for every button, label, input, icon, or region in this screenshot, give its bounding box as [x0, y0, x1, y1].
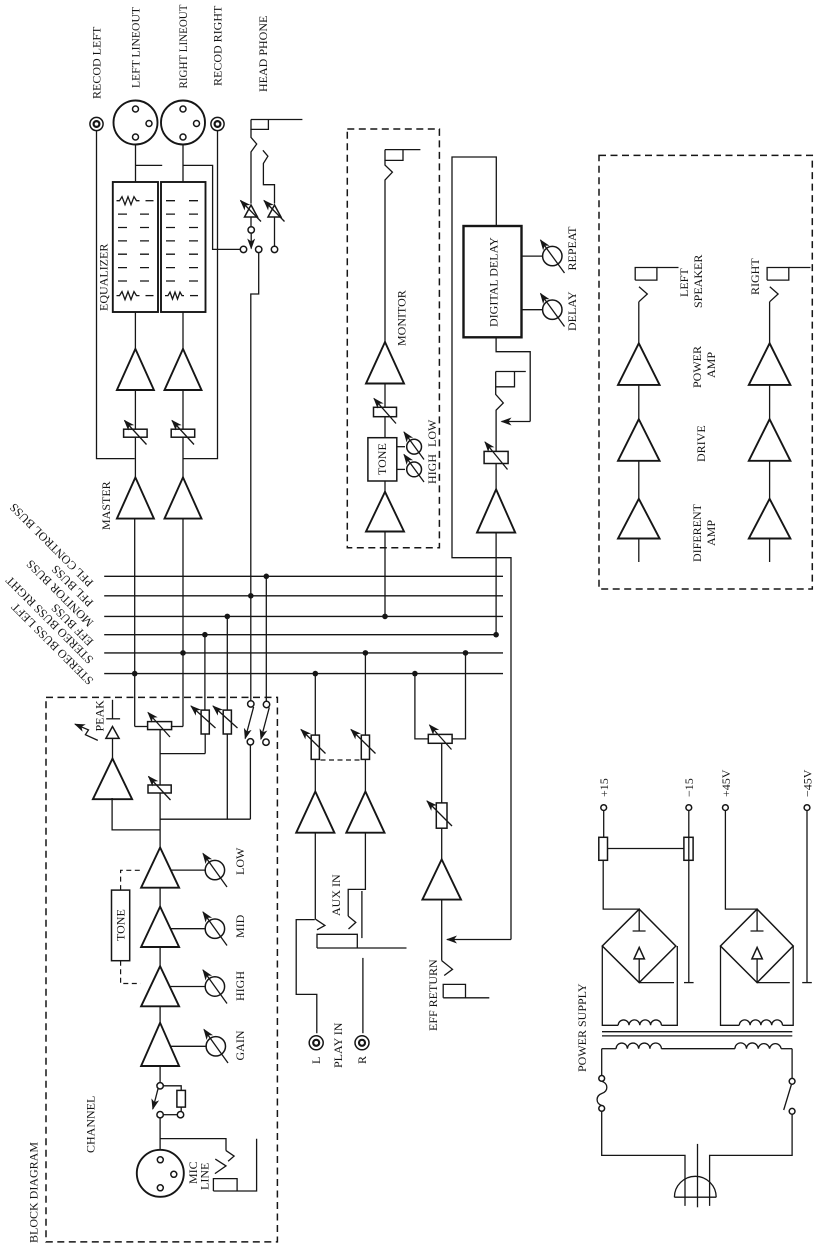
- wire -15 terminal down: [688, 811, 690, 983]
- wire master R down to stereo buss right and pan pot: [182, 519, 184, 727]
- wire PFL switch to branch: [249, 745, 251, 819]
- switch PFL-control bottom contact: [263, 739, 269, 745]
- fader pot (channel): [148, 777, 171, 801]
- wire left drive to power amp: [638, 385, 640, 419]
- EQ2 slider tick rows: [166, 201, 198, 281]
- pad resistor branch wire bottom: [180, 1107, 182, 1111]
- junction aux R / stereo buss right: [363, 650, 369, 656]
- selector contact middle: [256, 246, 262, 252]
- wire channel chain pan pot to fader: [159, 730, 161, 785]
- svg-text:MONITOR: MONITOR: [395, 290, 409, 346]
- switch PFL bottom contact: [247, 739, 253, 745]
- wire delay box to REPEAT knob: [522, 255, 543, 257]
- svg-text:TONE: TONE: [375, 443, 389, 475]
- wire LOW amp to knob: [171, 869, 206, 871]
- wire monitor pot up to MONITOR buss: [226, 616, 228, 710]
- wire aux L amp to jack: [314, 833, 316, 919]
- svg-text:PLAY IN: PLAY IN: [331, 1022, 345, 1068]
- wire between pad bottom contacts: [163, 1114, 177, 1116]
- svg-text:HEAD PHONE: HEAD PHONE: [256, 16, 270, 92]
- wire pan pot left terminal: [135, 726, 148, 728]
- wire GAIN amp to pad switch: [159, 1066, 161, 1083]
- wire aux L pot to amp: [314, 759, 316, 791]
- wire XLR2 to equalizer R: [182, 145, 184, 183]
- wire MONITOR BUSS: [104, 615, 503, 617]
- knob DELAY: [541, 294, 565, 327]
- wire -45V terminal down: [806, 811, 808, 983]
- terminal +15: [601, 805, 607, 811]
- svg-text:+45V: +45V: [719, 769, 733, 797]
- wire +15 resistor to bridge1 top: [603, 860, 639, 909]
- resistor slider EQ2 bottom: [165, 292, 184, 299]
- knob GAIN: [204, 1030, 228, 1064]
- svg-text:MID: MID: [233, 914, 247, 938]
- bridge rectifier 1 diamond: [602, 909, 676, 983]
- wire pad switch to mic xlr: [159, 1118, 161, 1150]
- pad switch lever: [153, 1089, 158, 1109]
- label DIFERENT AMP: [690, 503, 718, 562]
- wire HIGH amp to GAIN amp: [159, 1006, 161, 1023]
- svg-text:−45V: −45V: [801, 769, 815, 797]
- svg-text:−15: −15: [682, 778, 696, 797]
- svg-text:R: R: [355, 1056, 369, 1064]
- wire MID amp to HIGH amp: [159, 947, 161, 966]
- right speaker jack sleeve line: [789, 267, 811, 269]
- junction master R / stereo buss right: [180, 650, 186, 656]
- potentiometer master-record L: [124, 421, 148, 445]
- wire left chain input stub: [638, 539, 640, 563]
- wire HIGH amp to knob: [171, 986, 206, 988]
- svg-text:DIGITAL DELAY: DIGITAL DELAY: [487, 237, 501, 327]
- wire right power amp to speaker jack: [769, 302, 771, 344]
- wire pot R to master amp: [182, 437, 184, 477]
- pan pot (channel): [148, 713, 172, 738]
- wire fader to LOW amp with branch junctions: [159, 793, 161, 848]
- mains switch contact top: [789, 1078, 795, 1084]
- aux jack sleeve line: [317, 947, 407, 949]
- fuse-breaker contact top: [599, 1076, 605, 1082]
- mains switch lever: [784, 1085, 792, 1111]
- wire monitor amp down to monitor buss: [384, 481, 386, 616]
- wire right diferent to drive: [769, 461, 771, 499]
- switch PFL-control top contact: [263, 701, 269, 707]
- wire EFF BUSS: [104, 634, 496, 636]
- knob monitor HIGH: [404, 455, 424, 483]
- equalizer box right: [161, 182, 206, 312]
- wire pot to delay send amp: [495, 464, 497, 490]
- junction channel monitor send / MONITOR buss: [225, 614, 231, 620]
- potentiometer aux R: [351, 730, 376, 760]
- wire +45V terminal to bridge2 top: [725, 811, 757, 910]
- channel TONE box: [112, 890, 130, 961]
- op-amp peak driver: [93, 759, 132, 800]
- resistor slider EQ1 top: [117, 197, 140, 205]
- wire +15 terminal to resistor: [603, 811, 605, 838]
- junction eff return R / stereo buss right: [463, 650, 469, 656]
- svg-text:MASTER: MASTER: [99, 481, 113, 530]
- svg-text:DRIVE: DRIVE: [694, 425, 708, 462]
- wire aux R buss to pot: [364, 653, 366, 735]
- op-amp channel HIGH: [141, 966, 179, 1006]
- selector wiper contact: [248, 227, 254, 233]
- op-amp channel GAIN: [141, 1023, 179, 1066]
- channel dashed box: [46, 697, 277, 1242]
- peak LED lightning arrow: [75, 724, 98, 740]
- wire STEREO BUSS RIGHT: [104, 652, 503, 654]
- wire -45V end bar: [802, 982, 812, 984]
- svg-text:HIGH: HIGH: [425, 454, 439, 484]
- svg-text:POWER: POWER: [690, 346, 704, 388]
- wire PFL BUSS: [104, 595, 503, 597]
- dashed gang link between aux pots: [321, 759, 361, 761]
- peak LED cathode bar: [106, 718, 120, 720]
- power amp dashed box: [599, 155, 812, 589]
- wire right chain input stub: [769, 539, 771, 563]
- wire peak LED top: [112, 700, 114, 719]
- delay jack sleeve line: [496, 371, 526, 373]
- svg-text:EQUALIZER: EQUALIZER: [97, 244, 111, 311]
- line jack sleeve line: [213, 1139, 256, 1191]
- svg-text:LEFT LINEOUT: LEFT LINEOUT: [129, 6, 143, 88]
- knob REPEAT: [541, 240, 565, 273]
- monitor dashed box: [347, 129, 439, 548]
- knob monitor LOW: [404, 432, 424, 460]
- left speaker jack body: [635, 268, 657, 281]
- monitor jack contact: [385, 160, 392, 342]
- delay jack body: [496, 372, 515, 387]
- mains plug center pin: [697, 1144, 699, 1207]
- wire switch to plug right prong: [710, 1114, 793, 1206]
- transformer core lines: [602, 1032, 792, 1036]
- wire left diferent to drive: [638, 461, 640, 499]
- bridge2 diode symbol: [751, 909, 764, 983]
- wire delay send amp to EFF buss: [495, 533, 497, 635]
- right speaker jack contact: [770, 287, 779, 302]
- wire pan pot to level pot: [441, 743, 443, 803]
- wire right lineout tap to headphone selector: [183, 165, 240, 249]
- right speaker jack body: [767, 268, 789, 281]
- switch PFL top contact: [248, 701, 254, 707]
- wire EQ2 to line amp R: [182, 312, 184, 349]
- connector J2 LEFT LINEOUT (XLR): [114, 101, 158, 145]
- pad switch top contact: [157, 1083, 163, 1089]
- aux jack body: [317, 934, 357, 948]
- transformer secondary 2: [721, 946, 794, 1025]
- LED level R: [264, 201, 285, 222]
- potentiometer delay send: [484, 442, 508, 470]
- potentiometer monitor level: [374, 399, 397, 424]
- fuse-breaker contact bottom: [599, 1106, 605, 1112]
- op-amp left drive: [618, 419, 660, 461]
- peak LED triangle: [106, 727, 119, 739]
- wire branch to monitor pot and PFL switch: [160, 818, 250, 820]
- fuse-breaker S element: [597, 1081, 607, 1105]
- svg-text:L: L: [309, 1057, 323, 1064]
- connector J4 RECOD RIGHT (RCA): [211, 117, 224, 130]
- wire RECOD LEFT to master-left tap: [97, 131, 135, 459]
- selector contact left: [240, 246, 246, 252]
- label POWER AMP: [690, 346, 718, 388]
- selector contact right: [271, 246, 277, 252]
- svg-text:TONE: TONE: [114, 909, 128, 941]
- wire play-in L feed: [296, 920, 317, 1034]
- wire LOW amp to MID amp: [159, 888, 161, 907]
- DIGITAL DELAY box: [464, 226, 522, 337]
- headphone jack contact ring: [263, 150, 275, 203]
- aux jack contact R: [348, 916, 356, 929]
- svg-text:REPEAT: REPEAT: [565, 226, 579, 271]
- op-amp aux L: [296, 792, 334, 833]
- wire delay box top to eff-return feed: [452, 157, 511, 940]
- svg-text:DELAY: DELAY: [565, 291, 579, 331]
- junction monitor feed / MONITOR buss: [382, 614, 388, 620]
- wire switch to primary right: [791, 1049, 793, 1079]
- mains switch contact bottom: [789, 1108, 795, 1114]
- potentiometer monitor send (channel): [213, 706, 238, 734]
- EQ1 slider tick rows: [118, 214, 149, 281]
- wire aux R pot to amp: [364, 759, 366, 791]
- svg-text:GAIN: GAIN: [233, 1030, 247, 1060]
- wire stub left lineout tap: [136, 164, 163, 166]
- wire delay box to DELAY knob: [522, 309, 543, 311]
- monitor jack sleeve line: [385, 149, 420, 151]
- wire master L down to stereo buss left and pan pot: [134, 519, 136, 727]
- svg-text:EFF RETURN: EFF RETURN: [426, 959, 440, 1031]
- resistor +15 rail: [599, 837, 608, 860]
- svg-text:SPEAKER: SPEAKER: [691, 255, 705, 308]
- wire eff return R to stereo buss right: [452, 653, 465, 739]
- knob LOW: [203, 854, 227, 888]
- wire linking rail resistors: [608, 848, 684, 850]
- wire eff return L to stereo buss left: [415, 674, 428, 739]
- connector J1 RECOD LEFT (RCA): [90, 117, 103, 130]
- svg-text:RIGHT: RIGHT: [748, 258, 762, 295]
- wire selector middle contact down to PFL buss: [251, 253, 259, 701]
- transformer secondary 1: [602, 946, 677, 1025]
- op-amp channel MID: [141, 907, 179, 947]
- knob MID: [203, 912, 227, 946]
- connector mic XLR: [137, 1150, 184, 1197]
- dashed link tone to LOW amp: [121, 870, 141, 890]
- wire primary left to fuse: [601, 1049, 603, 1076]
- left speaker jack contact: [639, 287, 648, 302]
- selector wiper arrow: [250, 234, 252, 249]
- dashed link tone to HIGH amp: [121, 961, 141, 984]
- eff return jack contact: [442, 961, 453, 976]
- wire delay box bottom to insert arrow: [496, 337, 530, 421]
- svg-text:LOW: LOW: [233, 847, 247, 875]
- equalizer box left: [113, 182, 158, 312]
- svg-text:AMP: AMP: [704, 352, 718, 378]
- junction channel eff send / EFF buss: [202, 632, 208, 638]
- wire level pot to amp: [441, 828, 443, 859]
- svg-text:+15: +15: [597, 778, 611, 797]
- bridge rectifier 2 diamond: [721, 909, 794, 983]
- wire delay insert arrow: [502, 421, 531, 423]
- pad switch bottom-right contact: [177, 1112, 183, 1118]
- wire play-in R riser: [362, 958, 364, 1033]
- eff return jack body: [443, 984, 465, 997]
- resistor slider EQ1 bottom: [117, 292, 140, 300]
- wire LED L to selector wiper: [250, 217, 252, 227]
- op-amp aux R: [346, 792, 384, 833]
- wire delay return into eff-return chain (arrow): [447, 939, 511, 941]
- potentiometer master-record R: [171, 421, 195, 445]
- op-amp delay send: [477, 489, 515, 532]
- wire aux R amp to jack: [348, 833, 365, 916]
- op-amp right drive: [749, 419, 791, 461]
- eff return jack sleeve line: [443, 997, 489, 999]
- wire pot L to master amp: [134, 437, 136, 477]
- wire MID amp to knob: [171, 928, 206, 930]
- wire RECOD RIGHT to master-right tap: [183, 131, 218, 459]
- wire left power amp to speaker jack: [638, 302, 640, 344]
- svg-text:AUX IN: AUX IN: [329, 874, 343, 916]
- line jack contact: [226, 1151, 234, 1162]
- op-amp MASTER R: [165, 477, 202, 518]
- op-amp MASTER L: [117, 477, 154, 518]
- monitor jack body: [385, 150, 403, 161]
- junction headphone-PFL / PFL buss: [248, 593, 254, 599]
- resistor -15 rail: [684, 837, 693, 860]
- wire peak amp to LED: [112, 738, 114, 758]
- wire XLR1 to equalizer L: [135, 145, 137, 183]
- wire primary left to plug: [602, 1111, 685, 1206]
- svg-text:BLOCK DIAGRAM: BLOCK DIAGRAM: [27, 1142, 41, 1243]
- knob HIGH: [203, 970, 227, 1004]
- op-amp right power amp: [749, 343, 791, 385]
- op-amp left diferent amp: [618, 499, 660, 539]
- potentiometer aux L: [301, 730, 326, 760]
- wire branch to peak amp: [112, 798, 160, 830]
- svg-text:PEAK: PEAK: [92, 700, 106, 732]
- wire branch to eff pot: [160, 753, 205, 755]
- svg-text:LINE: LINE: [198, 1163, 212, 1190]
- junction PFL control / PFL CONTROL buss: [264, 574, 270, 580]
- wire monitor amp to pot: [384, 384, 386, 408]
- mains plug dome: [674, 1176, 716, 1197]
- monitor TONE box: [368, 438, 397, 481]
- junction aux L / stereo buss left: [313, 671, 319, 677]
- terminal +45V: [723, 805, 729, 811]
- left speaker jack sleeve line: [657, 267, 679, 269]
- aux jack contact L: [315, 919, 325, 930]
- terminal -45V: [804, 805, 810, 811]
- wire pan pot right terminal: [171, 726, 183, 728]
- switch PFL-control lever: [261, 708, 269, 740]
- label LEFT SPEAKER: [677, 255, 705, 308]
- op-amp right diferent amp: [749, 499, 791, 539]
- op-amp channel LOW: [141, 848, 179, 888]
- op-amp monitor output: [366, 342, 404, 384]
- terminal -15: [686, 805, 692, 811]
- delay jack contact: [496, 387, 504, 452]
- wire bridge1 bottom to -15: [639, 982, 674, 984]
- transformer primary winding: [602, 1043, 792, 1049]
- wire pot to tone box: [384, 417, 386, 438]
- bridge1 diode symbol: [633, 909, 646, 983]
- wire eff pot up to EFF buss: [204, 635, 206, 710]
- aux jack open terminal: [361, 891, 363, 938]
- wire monitor pot down to branch: [226, 734, 228, 819]
- pad switch bottom contact: [157, 1112, 163, 1118]
- svg-text:LOW: LOW: [425, 419, 439, 447]
- potentiometer eff send (channel): [191, 706, 216, 734]
- svg-text:AMP: AMP: [704, 520, 718, 546]
- svg-text:LEFT: LEFT: [677, 268, 691, 297]
- wire tone to LOW knob: [397, 446, 405, 448]
- wire -15 end bar: [684, 982, 694, 984]
- potentiometer eff return pan: [428, 725, 452, 750]
- connector PLAY IN L (RCA): [309, 1036, 323, 1050]
- wire amp to jack with delay return junction: [441, 900, 443, 961]
- wire GAIN amp to knob: [171, 1045, 207, 1047]
- wire aux L buss to pot: [314, 674, 316, 736]
- svg-text:RIGHT LINEOUT: RIGHT LINEOUT: [176, 4, 190, 89]
- op-amp left power amp: [618, 343, 660, 385]
- wire amp L to pot: [134, 390, 136, 429]
- wire EQ1 to line amp L: [134, 312, 136, 349]
- wire PFL CONTROL BUSS: [104, 575, 503, 577]
- wire bridge2 bottom stub: [757, 982, 790, 984]
- wire tone to HIGH knob: [397, 468, 405, 470]
- op-amp line amp R: [165, 349, 202, 390]
- wire right drive to power amp: [769, 385, 771, 419]
- connector PLAY IN R (RCA): [355, 1036, 369, 1050]
- svg-text:CHANNEL: CHANNEL: [84, 1096, 98, 1153]
- op-amp monitor input: [366, 492, 404, 532]
- junction master L / stereo buss left: [132, 671, 138, 677]
- line jack body: [213, 1179, 237, 1191]
- pad resistor branch wire top: [163, 1086, 181, 1091]
- svg-text:POWER SUPPLY: POWER SUPPLY: [575, 983, 589, 1072]
- svg-text:RECOD LEFT: RECOD LEFT: [90, 26, 104, 99]
- wire eff pot down to branch: [204, 734, 206, 754]
- switch PFL lever: [245, 707, 253, 739]
- headphone jack sleeve line: [251, 119, 302, 121]
- headphone jack contact tip: [251, 129, 257, 203]
- wire STEREO BUSS LEFT: [104, 673, 503, 675]
- op-amp line amp L: [117, 349, 154, 390]
- connector J3 RIGHT LINEOUT (XLR): [161, 101, 205, 145]
- svg-text:RECOD RIGHT: RECOD RIGHT: [211, 5, 225, 86]
- resistor pad: [177, 1090, 186, 1107]
- junction delay send / EFF buss: [493, 632, 499, 638]
- wire PFL-control switch up to buss: [265, 576, 267, 701]
- svg-text:DIFERENT: DIFERENT: [690, 503, 704, 562]
- junction eff return L / stereo buss left: [412, 671, 418, 677]
- LED level L: [241, 201, 262, 222]
- line jack plug tip chevron: [215, 1159, 226, 1174]
- wire amp R to pot: [182, 390, 184, 429]
- op-amp eff return: [422, 859, 461, 899]
- wire LED R to selector right contact: [274, 217, 276, 246]
- potentiometer eff return level: [427, 801, 452, 828]
- svg-text:HIGH: HIGH: [233, 971, 247, 1001]
- wire line-input branch: [160, 1139, 226, 1151]
- headphone jack body: [251, 120, 268, 130]
